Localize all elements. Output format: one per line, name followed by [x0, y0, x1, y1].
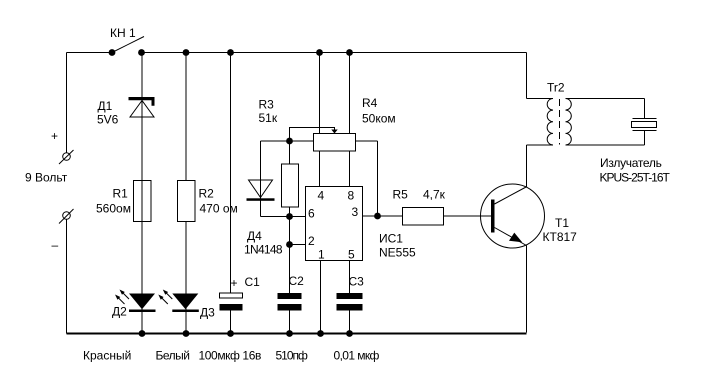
battery plus terminal [59, 150, 74, 164]
svg-text:КТ817: КТ817 [543, 230, 578, 244]
svg-text:560ом: 560ом [96, 202, 131, 216]
junction pin3 node [374, 213, 381, 220]
capacitor C2 [278, 293, 302, 311]
svg-text:5V6: 5V6 [97, 113, 119, 127]
wire secondary lead bottom [566, 144, 645, 146]
svg-text:6: 6 [308, 207, 315, 221]
svg-text:T1: T1 [555, 216, 569, 230]
svg-text:C3: C3 [349, 275, 365, 289]
wire piezo bottom vertical [644, 131, 646, 146]
wire C1 column upper [230, 53, 232, 294]
resistor R1 [134, 181, 152, 222]
transformer Tr2 core [559, 99, 561, 145]
wire top rail right segment [142, 52, 527, 54]
wire pin5 column [349, 261, 351, 294]
capacitor C3 [337, 293, 363, 311]
wire top rail left segment [67, 52, 113, 54]
transformer Tr2 secondary coil [566, 99, 572, 146]
transformer Tr2 primary coil [547, 99, 553, 146]
wire pin3 horizontal [363, 215, 403, 217]
svg-text:+: + [231, 276, 238, 290]
wire C2 lower [289, 311, 291, 333]
junction top rail pin8 column [346, 49, 353, 56]
wire left column upper [66, 53, 68, 153]
junction node A [286, 138, 293, 145]
op-amp U1 NE555 box [306, 187, 363, 261]
wire emitter vertical [526, 246, 528, 333]
svg-text:ИС1: ИС1 [379, 232, 403, 246]
svg-text:Д1: Д1 [98, 99, 113, 113]
wire C3 lower [349, 311, 351, 333]
wire base horizontal [444, 215, 492, 217]
junction switch left [109, 49, 116, 56]
svg-text:1: 1 [318, 248, 325, 262]
LED D2 arrows [115, 290, 129, 305]
svg-text:R4: R4 [362, 96, 378, 110]
svg-text:Д2: Д2 [112, 305, 127, 319]
svg-text:510пф: 510пф [276, 349, 309, 363]
wire left column lower [66, 220, 68, 334]
transformer Tr2 primary lead top [527, 98, 554, 100]
capacitor C1 [220, 293, 243, 311]
svg-text:Д3: Д3 [200, 306, 215, 320]
wire bottom rail [67, 333, 527, 335]
wire pin4 column [319, 53, 321, 187]
junction bottom rail C2 [286, 330, 293, 337]
wire right top vertical [526, 53, 528, 99]
wire diode branch vertical [260, 141, 262, 217]
svg-text:5: 5 [348, 248, 355, 262]
svg-text:C2: C2 [289, 274, 305, 288]
junction pin6 node [286, 213, 293, 220]
svg-text:Излучатель: Излучатель [600, 156, 662, 170]
svg-text:2: 2 [308, 234, 315, 248]
svg-text:C1: C1 [245, 275, 261, 289]
LED D3 [172, 294, 199, 313]
resistor R3 [282, 164, 299, 207]
svg-text:3: 3 [352, 205, 359, 219]
svg-text:Д4: Д4 [247, 229, 262, 243]
wire pin6 horizontal [261, 216, 306, 218]
svg-text:9 Вольт: 9 Вольт [25, 171, 68, 185]
wire pot right horizontal [356, 140, 378, 142]
svg-text:51к: 51к [259, 111, 278, 125]
resistor R5 [403, 208, 444, 226]
svg-text:100мкф 16в: 100мкф 16в [199, 349, 261, 363]
wire R4 wiper stub up from node A [290, 128, 335, 142]
wire pin2 horizontal [290, 244, 306, 246]
battery minus terminal [59, 209, 74, 224]
transistor T1 [481, 184, 545, 248]
svg-text:1N4148: 1N4148 [244, 243, 283, 257]
piezo emitter element [632, 119, 657, 131]
svg-text:–: – [52, 238, 59, 252]
svg-text:R2: R2 [199, 187, 215, 201]
junction bottom rail C1 [227, 330, 234, 337]
svg-text:4: 4 [318, 189, 325, 203]
wire column D1 R1 LED2 [141, 53, 143, 333]
potentiometer R4 [314, 134, 356, 152]
junction top rail R2 column [183, 49, 190, 56]
resistor R2 [178, 181, 196, 222]
switch KH1 lever [112, 37, 144, 53]
svg-text:Tr2: Tr2 [547, 81, 565, 95]
wire collector vertical [526, 145, 528, 187]
svg-text:470 ом: 470 ом [200, 202, 238, 216]
wire pin8 column [349, 53, 351, 187]
svg-text:4,7к: 4,7к [423, 188, 446, 202]
junction top rail pin4 column [316, 49, 323, 56]
junction switch right [138, 49, 145, 56]
wire column R2 LED3 [185, 53, 187, 333]
zener diode D1 [129, 97, 155, 117]
svg-text:0,01 мкф: 0,01 мкф [334, 349, 380, 363]
svg-text:КН 1: КН 1 [110, 26, 136, 40]
svg-text:50ком: 50ком [362, 112, 396, 126]
svg-text:R1: R1 [113, 187, 129, 201]
svg-text:+: + [51, 129, 58, 143]
LED D3 arrows [158, 290, 172, 305]
transformer Tr2 primary lead bottom [527, 144, 554, 146]
junction top rail C1 column [227, 49, 234, 56]
junction pin2 node [286, 241, 293, 248]
junction bottom rail D3 [183, 330, 190, 337]
svg-text:Белый: Белый [156, 349, 190, 363]
svg-text:R5: R5 [393, 188, 409, 202]
svg-text:NE555: NE555 [379, 246, 416, 260]
diode D4 [247, 180, 275, 201]
wire R3 C2 column [289, 141, 291, 293]
wire secondary lead top [566, 98, 645, 100]
wire pot output vertical [377, 141, 379, 216]
wire C1 column lower [230, 311, 232, 333]
wire pin1 column [320, 261, 322, 333]
svg-text:Красный: Красный [83, 349, 131, 363]
svg-text:R3: R3 [259, 98, 275, 112]
LED D2 [129, 294, 156, 313]
svg-text:8: 8 [348, 189, 355, 203]
junction bottom rail D2 [139, 330, 146, 337]
svg-text:KPUS-25T-16T: KPUS-25T-16T [600, 171, 671, 185]
wire node A horizontal [261, 140, 314, 142]
junction bottom rail C3 [346, 330, 353, 337]
wire piezo top vertical [644, 99, 646, 119]
R4 wiper arrow [331, 130, 337, 134]
junction bottom rail pin1 [317, 330, 324, 337]
